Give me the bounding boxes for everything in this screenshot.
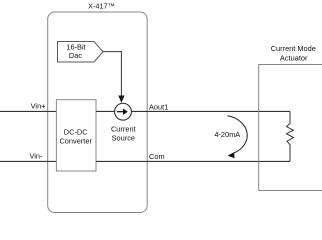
svg-text:Aout1: Aout1 xyxy=(149,103,168,112)
svg-text:Current Mode: Current Mode xyxy=(271,44,316,53)
svg-text:X-417™: X-417™ xyxy=(88,2,115,11)
wire DC-DC to current source (Vin+ rail) xyxy=(96,110,115,112)
wire Vin+ left segment xyxy=(0,110,56,112)
current source U3 xyxy=(115,103,132,120)
current loop arrow 4-20mA xyxy=(228,116,248,153)
wire DAC output to current source xyxy=(103,52,121,97)
svg-text:4-20mA: 4-20mA xyxy=(214,130,240,139)
arrowhead into current source xyxy=(118,96,124,103)
wire Com rail from DC-DC to load xyxy=(96,160,290,162)
DAC U1 16-Bit Dac xyxy=(58,42,104,63)
resistor R load xyxy=(287,111,294,161)
svg-text:Source: Source xyxy=(112,134,135,143)
current source arrow xyxy=(117,111,124,113)
module box X-417 xyxy=(48,12,148,213)
svg-text:Current: Current xyxy=(111,125,136,134)
svg-text:Dac: Dac xyxy=(69,51,82,60)
svg-text:Converter: Converter xyxy=(59,137,92,146)
svg-text:DC-DC: DC-DC xyxy=(64,128,88,137)
svg-text:Vin-: Vin- xyxy=(29,152,43,161)
DC-DC converter U2 xyxy=(56,100,96,171)
wire Aout1 from current source to load xyxy=(131,110,290,112)
wire Vin- left segment xyxy=(0,160,56,162)
arrowhead 4-20mA xyxy=(228,152,235,158)
svg-text:Com: Com xyxy=(149,152,165,161)
svg-text:16-Bit: 16-Bit xyxy=(66,42,85,51)
actuator box xyxy=(259,65,322,191)
svg-text:Actuator: Actuator xyxy=(280,53,308,62)
svg-text:Vin+: Vin+ xyxy=(31,102,46,111)
